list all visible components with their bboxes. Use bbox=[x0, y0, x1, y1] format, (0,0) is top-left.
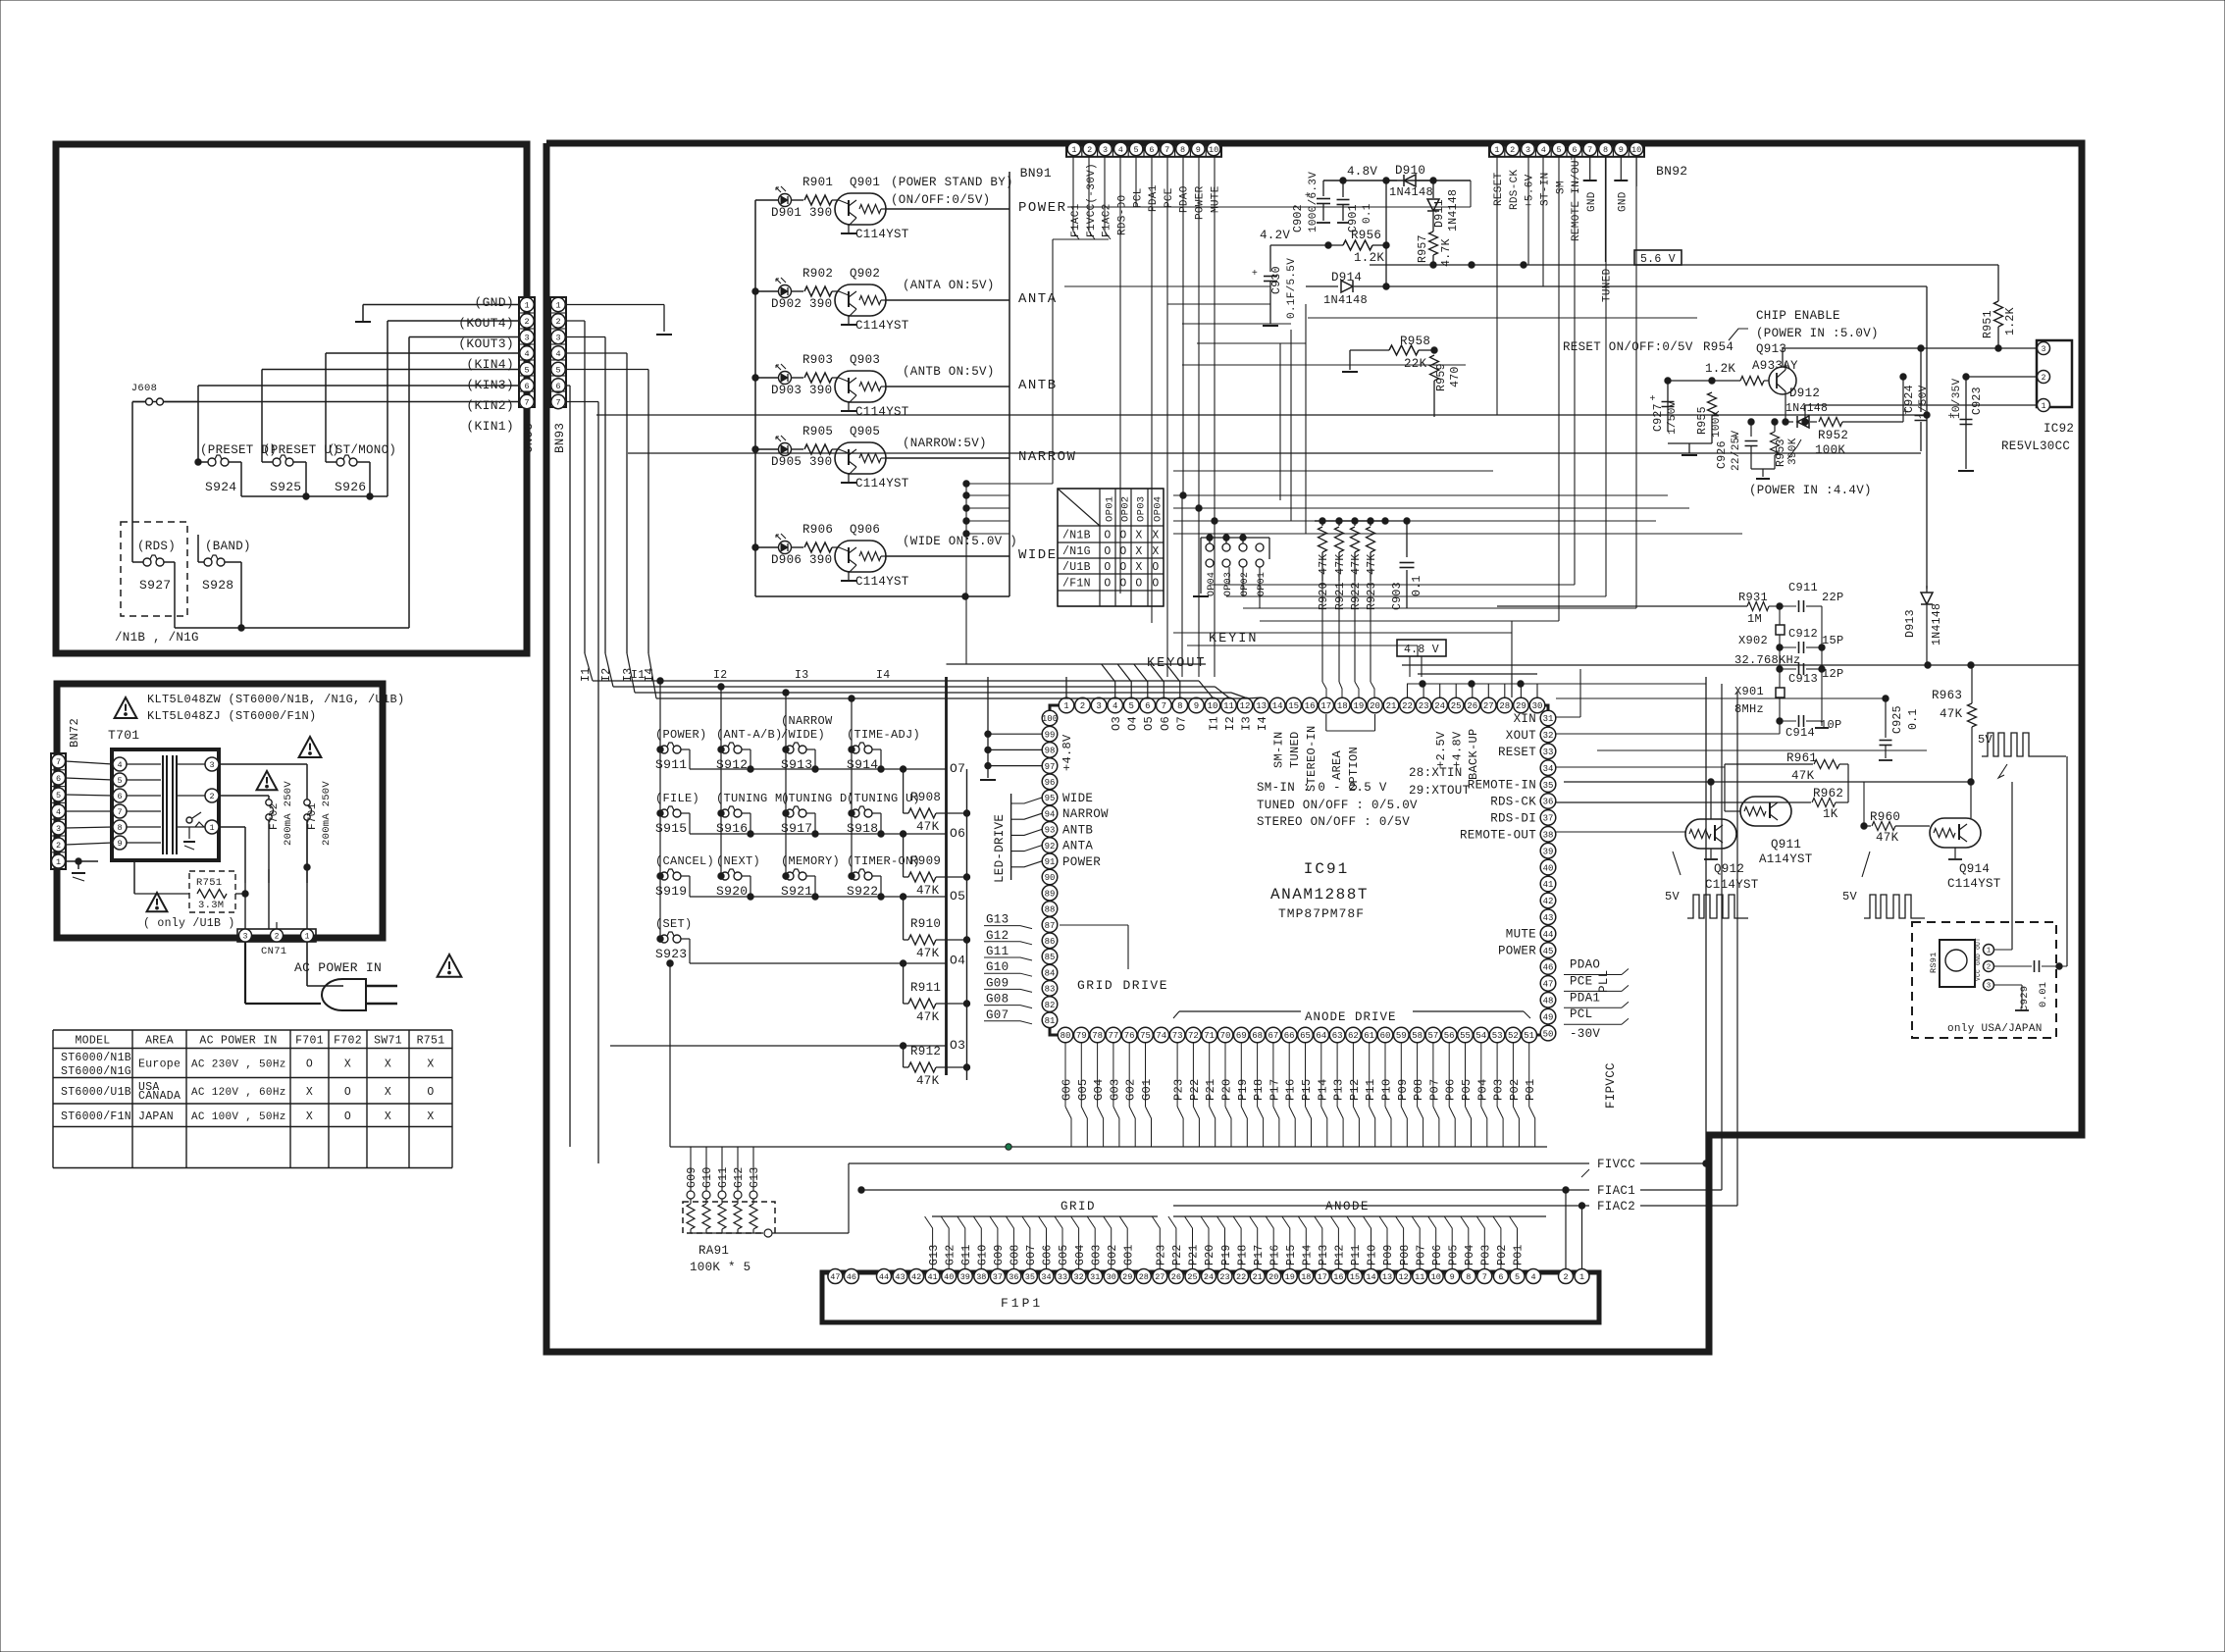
svg-text:75: 75 bbox=[1140, 1031, 1151, 1041]
svg-text:3.3M: 3.3M bbox=[198, 900, 224, 911]
svg-text:P05: P05 bbox=[1448, 1244, 1461, 1265]
svg-text:(KOUT4): (KOUT4) bbox=[458, 316, 514, 331]
svg-text:O6: O6 bbox=[950, 826, 965, 841]
svg-text:62: 62 bbox=[1348, 1031, 1359, 1041]
svg-text:OP02: OP02 bbox=[1120, 496, 1132, 522]
svg-text:Q911: Q911 bbox=[1771, 838, 1801, 852]
svg-text:XOUT: XOUT bbox=[1506, 729, 1536, 743]
svg-text:F1AC1: F1AC1 bbox=[1070, 203, 1082, 237]
svg-text:(MEMORY): (MEMORY) bbox=[781, 854, 840, 868]
svg-text:XIN: XIN bbox=[1514, 712, 1536, 726]
svg-text:2: 2 bbox=[1563, 1272, 1568, 1282]
svg-text:66: 66 bbox=[1284, 1031, 1295, 1041]
svg-text:IC92: IC92 bbox=[2044, 422, 2074, 436]
svg-text:P04: P04 bbox=[1475, 1078, 1489, 1101]
svg-text:12: 12 bbox=[1240, 701, 1251, 711]
svg-text:G10: G10 bbox=[977, 1244, 990, 1265]
svg-text:KLT5L048ZJ (ST6000/F1N): KLT5L048ZJ (ST6000/F1N) bbox=[147, 709, 317, 723]
svg-text:X: X bbox=[427, 1110, 434, 1123]
svg-text:5V: 5V bbox=[1665, 890, 1681, 903]
svg-text:86: 86 bbox=[1045, 937, 1056, 947]
svg-text:P14: P14 bbox=[1302, 1244, 1315, 1265]
svg-text:12: 12 bbox=[1398, 1272, 1408, 1282]
svg-text:C114YST: C114YST bbox=[855, 477, 909, 490]
svg-text:AC 120V , 60Hz: AC 120V , 60Hz bbox=[191, 1087, 286, 1099]
svg-text:C114YST: C114YST bbox=[855, 319, 909, 333]
svg-text:C114YST: C114YST bbox=[1705, 878, 1759, 892]
svg-text:R959: R959 bbox=[1435, 363, 1448, 391]
svg-text:ST-IN: ST-IN bbox=[1540, 172, 1552, 206]
svg-text:/N1B , /N1G: /N1B , /N1G bbox=[115, 631, 199, 645]
svg-text:G07: G07 bbox=[986, 1008, 1009, 1022]
svg-text:R910: R910 bbox=[910, 917, 941, 931]
svg-text:P20: P20 bbox=[1204, 1244, 1216, 1265]
svg-text:78: 78 bbox=[1092, 1031, 1103, 1041]
svg-text:4.2V: 4.2V bbox=[1260, 229, 1290, 242]
svg-text:60: 60 bbox=[1380, 1031, 1391, 1041]
svg-text:+4.8V: +4.8V bbox=[1061, 734, 1074, 771]
svg-text:32: 32 bbox=[1073, 1272, 1083, 1282]
svg-text:MUTE: MUTE bbox=[1506, 928, 1536, 942]
svg-text:RESET: RESET bbox=[1498, 746, 1536, 759]
svg-text:P08: P08 bbox=[1412, 1078, 1425, 1101]
svg-text:100K * 5: 100K * 5 bbox=[690, 1261, 750, 1274]
svg-text:Q912: Q912 bbox=[1714, 862, 1744, 876]
svg-text:4: 4 bbox=[117, 760, 122, 770]
svg-text:(RDS): (RDS) bbox=[137, 540, 176, 553]
svg-text:4: 4 bbox=[555, 349, 560, 359]
svg-text:C923: C923 bbox=[1971, 387, 1984, 415]
svg-text:S923: S923 bbox=[655, 947, 687, 961]
svg-text:C114YST: C114YST bbox=[1947, 877, 2001, 891]
svg-text:9: 9 bbox=[1194, 701, 1199, 711]
svg-text:FIVCC: FIVCC bbox=[1597, 1158, 1635, 1171]
svg-text:5: 5 bbox=[555, 366, 560, 376]
svg-text:47K: 47K bbox=[1876, 831, 1899, 845]
svg-text:R963: R963 bbox=[1932, 689, 1962, 702]
svg-text:11: 11 bbox=[1223, 701, 1234, 711]
svg-text:(ON/OFF:0/5V): (ON/OFF:0/5V) bbox=[891, 193, 990, 207]
svg-text:11: 11 bbox=[1415, 1272, 1424, 1282]
svg-text:R901: R901 bbox=[802, 176, 833, 189]
svg-text:5: 5 bbox=[1128, 701, 1133, 711]
svg-text:P15: P15 bbox=[1300, 1078, 1314, 1101]
svg-text:O4: O4 bbox=[950, 954, 965, 968]
svg-text:MUTE: MUTE bbox=[1210, 185, 1221, 213]
svg-text:P13: P13 bbox=[1318, 1244, 1330, 1265]
svg-text:1: 1 bbox=[1071, 145, 1076, 155]
svg-text:6: 6 bbox=[1145, 701, 1150, 711]
svg-text:25: 25 bbox=[1187, 1272, 1197, 1282]
svg-text:0.1: 0.1 bbox=[1411, 575, 1423, 596]
svg-text:LED-DRIVE: LED-DRIVE bbox=[993, 814, 1007, 883]
svg-text:(ANT-A/B): (ANT-A/B) bbox=[716, 728, 783, 742]
svg-text:3: 3 bbox=[1096, 701, 1101, 711]
svg-text:F702: F702 bbox=[334, 1035, 362, 1048]
svg-text:14: 14 bbox=[1272, 701, 1283, 711]
svg-text:(TIME-ADJ): (TIME-ADJ) bbox=[847, 728, 920, 742]
svg-text:34: 34 bbox=[1041, 1272, 1051, 1282]
svg-text:77: 77 bbox=[1108, 1031, 1118, 1041]
svg-text:X: X bbox=[385, 1086, 391, 1099]
svg-text:P10: P10 bbox=[1367, 1244, 1379, 1265]
svg-text:X: X bbox=[1152, 545, 1159, 558]
svg-text:R923 47K: R923 47K bbox=[1366, 553, 1378, 610]
svg-text:P19: P19 bbox=[1220, 1244, 1233, 1265]
svg-text:FIAC2: FIAC2 bbox=[1597, 1200, 1635, 1213]
svg-text:31: 31 bbox=[1543, 714, 1554, 724]
svg-text:34: 34 bbox=[1543, 764, 1554, 774]
svg-text:6: 6 bbox=[117, 792, 122, 801]
svg-text:I1: I1 bbox=[1208, 716, 1221, 731]
svg-text:X902: X902 bbox=[1738, 634, 1768, 647]
svg-text:58: 58 bbox=[1412, 1031, 1423, 1041]
svg-text:D903 390: D903 390 bbox=[771, 384, 832, 397]
svg-text:P14: P14 bbox=[1316, 1078, 1329, 1101]
svg-text:(CANCEL): (CANCEL) bbox=[655, 854, 714, 868]
svg-text:POWER: POWER bbox=[1062, 855, 1101, 869]
svg-text:3: 3 bbox=[1987, 983, 1992, 991]
svg-text:Q902: Q902 bbox=[850, 267, 880, 281]
svg-text:15: 15 bbox=[1288, 701, 1299, 711]
svg-text:P21: P21 bbox=[1188, 1244, 1201, 1265]
svg-text:200mA 250V: 200mA 250V bbox=[283, 781, 294, 846]
svg-text:G06: G06 bbox=[1061, 1078, 1074, 1101]
svg-text:(KIN1): (KIN1) bbox=[466, 419, 514, 434]
svg-text:F1AC2: F1AC2 bbox=[1102, 203, 1113, 237]
svg-text:1: 1 bbox=[56, 857, 61, 867]
svg-text:43: 43 bbox=[895, 1272, 905, 1282]
svg-text:29: 29 bbox=[1516, 701, 1526, 711]
svg-text:44: 44 bbox=[1543, 930, 1554, 940]
svg-text:G10: G10 bbox=[701, 1166, 714, 1188]
svg-text:36: 36 bbox=[1009, 1272, 1018, 1282]
svg-text:100: 100 bbox=[1042, 714, 1058, 724]
svg-text:BN93: BN93 bbox=[553, 423, 567, 453]
svg-text:4.7K: 4.7K bbox=[1440, 238, 1453, 267]
svg-text:ANTA: ANTA bbox=[1018, 291, 1058, 307]
svg-text:2: 2 bbox=[275, 932, 280, 941]
svg-text:80: 80 bbox=[1061, 1031, 1071, 1041]
svg-text:22/25V: 22/25V bbox=[1731, 430, 1742, 471]
svg-text:22: 22 bbox=[1236, 1272, 1246, 1282]
svg-text:1N4148: 1N4148 bbox=[1323, 293, 1368, 307]
svg-text:C114YST: C114YST bbox=[855, 228, 909, 241]
svg-text:15P: 15P bbox=[1822, 634, 1844, 647]
svg-text:1: 1 bbox=[305, 932, 310, 941]
svg-text:Q901: Q901 bbox=[850, 176, 880, 189]
svg-text:P08: P08 bbox=[1399, 1244, 1412, 1265]
svg-text:G10: G10 bbox=[986, 960, 1009, 974]
svg-text:S926: S926 bbox=[335, 480, 366, 494]
svg-text:BN91: BN91 bbox=[1020, 166, 1052, 181]
svg-text:23: 23 bbox=[1219, 1272, 1229, 1282]
svg-text:R902: R902 bbox=[802, 267, 833, 281]
svg-text:ST6000/U1B: ST6000/U1B bbox=[61, 1086, 131, 1099]
svg-text:+2.5V: +2.5V bbox=[1434, 731, 1448, 768]
svg-text:7: 7 bbox=[1164, 145, 1169, 155]
svg-text:R920 47K: R920 47K bbox=[1318, 553, 1330, 610]
svg-text:47K: 47K bbox=[916, 884, 940, 898]
svg-text:R921 47K: R921 47K bbox=[1334, 553, 1347, 610]
svg-text:SM: SM bbox=[1555, 181, 1567, 194]
svg-text:SW71: SW71 bbox=[374, 1035, 402, 1048]
svg-text:ANAM1288T: ANAM1288T bbox=[1270, 886, 1369, 903]
svg-text:VCC GND OUT: VCC GND OUT bbox=[1975, 938, 1982, 981]
svg-text:1N4148: 1N4148 bbox=[1389, 185, 1433, 199]
svg-text:47K: 47K bbox=[1791, 769, 1815, 783]
svg-text:1.2K: 1.2K bbox=[2004, 307, 2017, 336]
svg-text:O: O bbox=[1152, 578, 1159, 591]
svg-text:3: 3 bbox=[524, 334, 529, 343]
svg-text:44: 44 bbox=[879, 1272, 889, 1282]
svg-text:F1P1: F1P1 bbox=[1001, 1296, 1043, 1311]
svg-text:47K: 47K bbox=[916, 820, 940, 834]
svg-text:70: 70 bbox=[1220, 1031, 1231, 1041]
svg-text:G01: G01 bbox=[1123, 1244, 1136, 1265]
svg-text:G11: G11 bbox=[717, 1166, 730, 1188]
svg-text:(NARROW: (NARROW bbox=[781, 714, 833, 728]
svg-text:I4: I4 bbox=[876, 669, 890, 682]
svg-text:D905 390: D905 390 bbox=[771, 455, 832, 469]
svg-text:10: 10 bbox=[1631, 145, 1641, 155]
svg-text:67: 67 bbox=[1268, 1031, 1278, 1041]
svg-text:O3: O3 bbox=[950, 1038, 965, 1053]
svg-text:Q903: Q903 bbox=[850, 353, 880, 367]
svg-text:SM-IN : 0 - 2.5 V: SM-IN : 0 - 2.5 V bbox=[1257, 781, 1387, 795]
svg-text:13: 13 bbox=[1256, 701, 1267, 711]
svg-text:56: 56 bbox=[1444, 1031, 1455, 1041]
svg-text:PLL: PLL bbox=[1597, 970, 1611, 993]
svg-text:P11: P11 bbox=[1350, 1244, 1363, 1265]
svg-text:82: 82 bbox=[1045, 1001, 1056, 1010]
svg-text:(FILE): (FILE) bbox=[655, 792, 699, 805]
svg-text:TMP87PM78F: TMP87PM78F bbox=[1278, 906, 1365, 921]
svg-text:WIDE: WIDE bbox=[1018, 547, 1058, 563]
svg-text:F701: F701 bbox=[295, 1035, 324, 1048]
svg-text:R751: R751 bbox=[417, 1035, 445, 1048]
svg-text:F702: F702 bbox=[269, 802, 281, 830]
svg-text:I4: I4 bbox=[644, 668, 656, 682]
svg-text:C912: C912 bbox=[1788, 627, 1818, 641]
svg-text:G03: G03 bbox=[1090, 1244, 1103, 1265]
svg-text:NARROW: NARROW bbox=[1062, 807, 1109, 821]
svg-text:C927: C927 bbox=[1652, 403, 1665, 432]
svg-text:D902 390: D902 390 bbox=[771, 297, 832, 311]
svg-text:KLT5L048ZW (ST6000/N1B, /N1G,: KLT5L048ZW (ST6000/N1B, /N1G, /U1B) bbox=[147, 693, 405, 706]
svg-text:R922 47K: R922 47K bbox=[1350, 553, 1363, 610]
svg-text:2: 2 bbox=[524, 317, 529, 327]
svg-text:8: 8 bbox=[117, 823, 122, 833]
svg-text:41: 41 bbox=[1543, 880, 1554, 890]
svg-text:1N4148: 1N4148 bbox=[1785, 402, 1828, 415]
svg-text:R903: R903 bbox=[802, 353, 833, 367]
svg-text:22K: 22K bbox=[1404, 357, 1427, 371]
svg-text:4.8V: 4.8V bbox=[1347, 165, 1377, 179]
svg-text:TUNED ON/OFF : 0/5.0V: TUNED ON/OFF : 0/5.0V bbox=[1257, 799, 1418, 812]
svg-text:1: 1 bbox=[209, 823, 214, 833]
svg-text:3: 3 bbox=[243, 932, 248, 941]
svg-text:P17: P17 bbox=[1268, 1078, 1281, 1101]
svg-text:1N4148: 1N4148 bbox=[1931, 603, 1943, 645]
svg-text:47: 47 bbox=[1543, 980, 1554, 990]
svg-text:RESET: RESET bbox=[1493, 172, 1505, 206]
svg-text:D901 390: D901 390 bbox=[771, 206, 832, 220]
svg-text:6: 6 bbox=[1149, 145, 1154, 155]
svg-text:(TUNING D): (TUNING D) bbox=[781, 792, 854, 805]
svg-text:47: 47 bbox=[830, 1272, 840, 1282]
svg-text:X: X bbox=[344, 1058, 351, 1071]
svg-text:D913: D913 bbox=[1904, 609, 1917, 638]
svg-text:X901: X901 bbox=[1734, 685, 1764, 698]
svg-text:16: 16 bbox=[1333, 1272, 1343, 1282]
svg-text:55: 55 bbox=[1460, 1031, 1471, 1041]
svg-text:91: 91 bbox=[1045, 857, 1056, 867]
svg-text:15: 15 bbox=[1350, 1272, 1360, 1282]
svg-text:(TUNING M): (TUNING M) bbox=[716, 792, 790, 805]
svg-text:O: O bbox=[1135, 578, 1142, 591]
svg-text:I4: I4 bbox=[1256, 716, 1269, 731]
svg-text:47K: 47K bbox=[1940, 707, 1963, 721]
svg-text:O5: O5 bbox=[950, 889, 965, 903]
svg-text:S927: S927 bbox=[139, 578, 171, 593]
svg-text:61: 61 bbox=[1364, 1031, 1374, 1041]
svg-text:30: 30 bbox=[1532, 701, 1543, 711]
svg-text:90: 90 bbox=[1045, 873, 1056, 883]
svg-text:(NEXT): (NEXT) bbox=[716, 854, 760, 868]
svg-text:ANODE DRIVE: ANODE DRIVE bbox=[1305, 1010, 1397, 1024]
svg-text:30: 30 bbox=[1107, 1272, 1116, 1282]
svg-text:C114YST: C114YST bbox=[855, 575, 909, 589]
svg-text:P13: P13 bbox=[1332, 1078, 1346, 1101]
svg-text:TUNED: TUNED bbox=[1288, 731, 1302, 768]
svg-text:7: 7 bbox=[524, 398, 529, 408]
svg-text:47K: 47K bbox=[916, 1074, 940, 1088]
svg-text:P20: P20 bbox=[1220, 1078, 1234, 1101]
svg-text:G01: G01 bbox=[1140, 1078, 1154, 1101]
svg-text:GND: GND bbox=[1618, 191, 1630, 212]
svg-text:G13: G13 bbox=[986, 913, 1009, 927]
svg-text:18: 18 bbox=[1337, 701, 1348, 711]
svg-text:0.01: 0.01 bbox=[2038, 982, 2049, 1007]
svg-text:5: 5 bbox=[1557, 145, 1562, 155]
svg-text:2: 2 bbox=[555, 317, 560, 327]
svg-text:33: 33 bbox=[1543, 748, 1554, 757]
svg-text:C902: C902 bbox=[1292, 204, 1305, 232]
svg-text:CANADA: CANADA bbox=[138, 1090, 181, 1103]
svg-text:4: 4 bbox=[1541, 145, 1546, 155]
svg-text:O7: O7 bbox=[1174, 716, 1188, 731]
svg-text:(GND): (GND) bbox=[474, 295, 514, 310]
svg-text:I2: I2 bbox=[1223, 716, 1237, 731]
svg-text:RDS-CK: RDS-CK bbox=[1509, 169, 1521, 210]
svg-text:OP01: OP01 bbox=[1105, 496, 1116, 522]
svg-text:6: 6 bbox=[56, 774, 61, 784]
svg-text:/F1N: /F1N bbox=[1062, 578, 1091, 591]
svg-text:17: 17 bbox=[1318, 1272, 1327, 1282]
svg-text:4: 4 bbox=[1112, 701, 1117, 711]
svg-text:G05: G05 bbox=[1076, 1078, 1090, 1101]
svg-text:P10: P10 bbox=[1380, 1078, 1394, 1101]
svg-text:2: 2 bbox=[1510, 145, 1515, 155]
svg-text:54: 54 bbox=[1475, 1031, 1486, 1041]
svg-text:-30V: -30V bbox=[1570, 1027, 1600, 1041]
svg-text:SM-IN: SM-IN bbox=[1272, 731, 1286, 768]
svg-text:98: 98 bbox=[1045, 747, 1056, 756]
svg-text:O: O bbox=[344, 1086, 351, 1099]
svg-text:20: 20 bbox=[1268, 1272, 1278, 1282]
svg-text:P15: P15 bbox=[1285, 1244, 1298, 1265]
svg-text:38: 38 bbox=[976, 1272, 986, 1282]
svg-text:R906: R906 bbox=[802, 523, 833, 537]
svg-text:OP04: OP04 bbox=[1207, 572, 1217, 596]
svg-text:37: 37 bbox=[1543, 814, 1554, 824]
svg-text:4: 4 bbox=[1118, 145, 1123, 155]
svg-text:95: 95 bbox=[1045, 794, 1056, 803]
svg-text:36: 36 bbox=[1543, 798, 1554, 807]
svg-text:(POWER): (POWER) bbox=[655, 728, 707, 742]
svg-text:9: 9 bbox=[1619, 145, 1624, 155]
svg-text:REMOTE-OUT: REMOTE-OUT bbox=[1460, 828, 1536, 842]
svg-text:G13: G13 bbox=[749, 1166, 761, 1188]
svg-text:69: 69 bbox=[1236, 1031, 1247, 1041]
svg-text:P19: P19 bbox=[1236, 1078, 1250, 1101]
svg-text:2: 2 bbox=[56, 841, 61, 851]
svg-text:C114YST: C114YST bbox=[855, 405, 909, 419]
svg-text:92: 92 bbox=[1045, 842, 1056, 852]
svg-text:2: 2 bbox=[1987, 964, 1992, 972]
svg-text:D906 390: D906 390 bbox=[771, 553, 832, 567]
svg-text:6: 6 bbox=[555, 382, 560, 391]
svg-text:81: 81 bbox=[1045, 1016, 1056, 1026]
svg-text:22P: 22P bbox=[1822, 591, 1844, 604]
svg-text:NARROW: NARROW bbox=[1018, 449, 1076, 465]
svg-text:A114YST: A114YST bbox=[1759, 852, 1813, 866]
svg-text:P07: P07 bbox=[1427, 1078, 1441, 1101]
svg-text:24: 24 bbox=[1204, 1272, 1214, 1282]
svg-text:( only /U1B ): ( only /U1B ) bbox=[143, 917, 235, 930]
svg-text:47K: 47K bbox=[916, 947, 940, 960]
svg-text:G02: G02 bbox=[1124, 1078, 1138, 1101]
svg-text:5.6 V: 5.6 V bbox=[1640, 253, 1676, 266]
svg-text:1M: 1M bbox=[1747, 612, 1762, 626]
svg-text:0.1F/5.5V: 0.1F/5.5V bbox=[1286, 258, 1298, 319]
svg-text:200mA 250V: 200mA 250V bbox=[321, 781, 333, 846]
svg-text:ST6000/F1N: ST6000/F1N bbox=[61, 1110, 131, 1123]
svg-text:1N4148: 1N4148 bbox=[1447, 189, 1460, 232]
svg-text:72: 72 bbox=[1188, 1031, 1199, 1041]
svg-text:3: 3 bbox=[209, 760, 214, 770]
svg-text:43: 43 bbox=[1543, 913, 1554, 923]
svg-text:J608: J608 bbox=[131, 383, 157, 394]
svg-text:10/35V: 10/35V bbox=[1951, 378, 1963, 419]
svg-text:I3: I3 bbox=[1240, 716, 1254, 731]
svg-text:21: 21 bbox=[1253, 1272, 1263, 1282]
svg-text:AC POWER IN: AC POWER IN bbox=[294, 960, 382, 975]
svg-text:AC 230V , 50Hz: AC 230V , 50Hz bbox=[191, 1059, 286, 1071]
svg-text:R958: R958 bbox=[1400, 335, 1430, 348]
svg-text:(BAND): (BAND) bbox=[205, 540, 251, 553]
svg-text:17: 17 bbox=[1320, 701, 1331, 711]
svg-text:59: 59 bbox=[1396, 1031, 1407, 1041]
svg-text:35: 35 bbox=[1543, 781, 1554, 791]
svg-text:REMOTE-IN: REMOTE-IN bbox=[1468, 779, 1536, 793]
svg-text:45: 45 bbox=[1543, 947, 1554, 956]
svg-text:83: 83 bbox=[1045, 985, 1056, 995]
svg-text:85: 85 bbox=[1045, 953, 1056, 962]
svg-text:D910: D910 bbox=[1395, 164, 1425, 178]
svg-text:AREA: AREA bbox=[1330, 749, 1344, 780]
